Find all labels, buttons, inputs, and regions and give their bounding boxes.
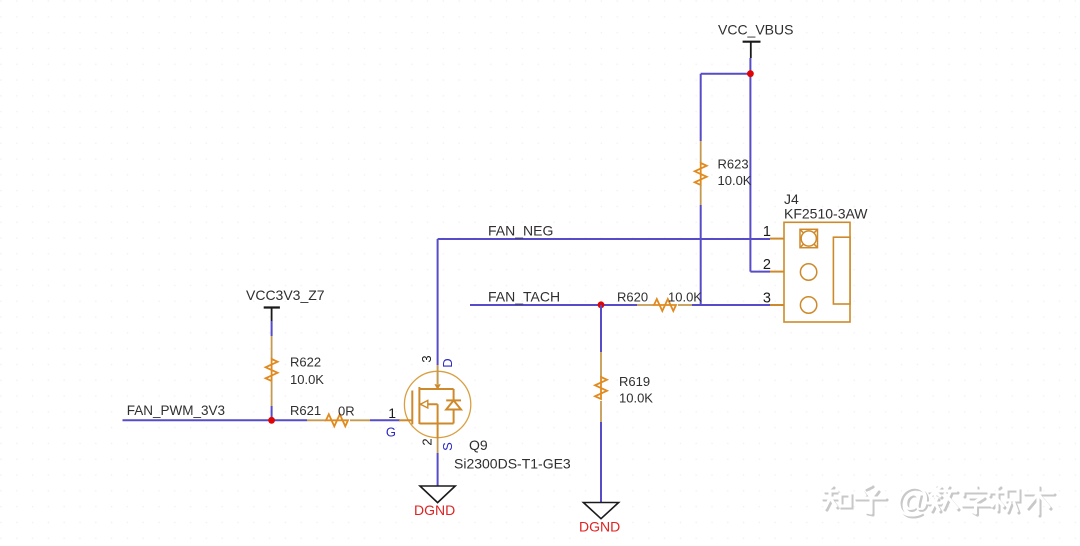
- svg-text:DGND: DGND: [579, 519, 620, 535]
- watermark 知乎 @数字积木: [822, 482, 1055, 522]
- wire J4 pin 2 horizontal: [750, 271, 770, 273]
- ground DGND (Q9): [414, 486, 455, 518]
- wire R619 bottom lead to ground: [600, 422, 602, 502]
- net FAN_TACH wire: [470, 304, 637, 306]
- svg-text:R620: R620: [617, 290, 648, 305]
- wire R622 bottom lead: [271, 406, 273, 420]
- wire R622 top lead: [271, 321, 273, 336]
- svg-text:R619: R619: [619, 374, 650, 389]
- svg-text:FAN_TACH: FAN_TACH: [488, 289, 560, 305]
- svg-text:VCC_VBUS: VCC_VBUS: [718, 22, 793, 38]
- resistor R621: [290, 403, 370, 426]
- svg-text:10.0K: 10.0K: [668, 290, 702, 305]
- resistor R623: [695, 141, 752, 205]
- svg-text:S: S: [440, 442, 455, 451]
- svg-text:FAN_NEG: FAN_NEG: [488, 223, 553, 239]
- svg-text:G: G: [386, 425, 396, 440]
- resistor R620: [617, 290, 702, 312]
- net FAN_NEG wire: [438, 239, 770, 365]
- svg-text:10.0K: 10.0K: [619, 391, 653, 406]
- resistor R619: [595, 352, 653, 422]
- wire R623 top lead: [700, 74, 702, 141]
- power symbol VCC3V3_Z7: [246, 287, 325, 321]
- svg-text:10.0K: 10.0K: [718, 173, 752, 188]
- svg-text:3: 3: [763, 291, 771, 307]
- wire junction horizontal to R623 branch: [701, 73, 751, 75]
- svg-text:KF2510-3AW: KF2510-3AW: [784, 206, 868, 222]
- svg-text:DGND: DGND: [414, 502, 455, 518]
- node junction FAN_TACH / R619: [598, 301, 605, 308]
- svg-text:0R: 0R: [338, 404, 355, 419]
- svg-text:R622: R622: [290, 355, 321, 370]
- svg-text:R623: R623: [718, 157, 749, 172]
- wire VCC_VBUS vertical to junction and down to J4 pin 2: [749, 58, 751, 272]
- wire R619 top lead: [600, 305, 602, 352]
- svg-text:3: 3: [419, 355, 434, 362]
- svg-text:Q9: Q9: [469, 437, 488, 453]
- connector J4 KF2510-3AW: [763, 191, 868, 322]
- power symbol VCC_VBUS: [718, 22, 793, 59]
- ground DGND (R619): [579, 503, 620, 535]
- node junction FAN_PWM / R622: [268, 417, 275, 424]
- svg-text:D: D: [440, 358, 455, 367]
- wire R621 to Q9 gate: [370, 419, 400, 421]
- svg-text:FAN_PWM_3V3: FAN_PWM_3V3: [127, 403, 225, 418]
- svg-text:R621: R621: [290, 403, 321, 418]
- svg-text:2: 2: [420, 438, 435, 445]
- svg-text:1: 1: [763, 224, 771, 240]
- net FAN_PWM_3V3 wire: [123, 419, 308, 421]
- wire Q9 source to ground: [437, 438, 439, 486]
- svg-text:10.0K: 10.0K: [290, 372, 324, 387]
- transistor Q9 Si2300DS-T1-GE3: [386, 355, 571, 471]
- node junction at VCC_VBUS: [747, 70, 754, 77]
- svg-text:2: 2: [763, 257, 771, 273]
- resistor R622: [266, 336, 325, 406]
- svg-text:Si2300DS-T1-GE3: Si2300DS-T1-GE3: [454, 456, 571, 472]
- svg-text:1: 1: [388, 405, 396, 421]
- wire R620 to J4 pin 3: [692, 304, 770, 306]
- svg-text:@: @: [896, 482, 931, 520]
- svg-text:VCC3V3_Z7: VCC3V3_Z7: [246, 287, 325, 303]
- wire R623 bottom lead down to FAN_TACH net: [700, 205, 702, 305]
